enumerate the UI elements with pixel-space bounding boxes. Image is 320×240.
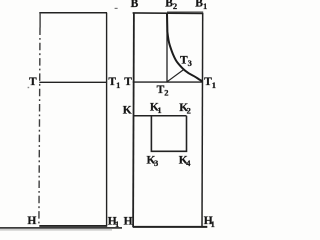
right rectangle top edge (133, 12, 204, 15)
left rectangle top edge (39, 12, 107, 14)
right rectangle left edge (132, 13, 135, 227)
pocket square K1-K2-K4-K3 (151, 116, 186, 152)
svg-text:B2: B2 (165, 0, 177, 11)
right rectangle top edge doubled segment (167, 11, 203, 13)
scan speck near B1 (115, 7, 118, 9)
left rectangle bottom edge (39, 225, 107, 227)
right rectangle bottom edge (133, 226, 208, 228)
bottom page rule (0, 227, 122, 229)
left rectangle fold line dashes (39, 28, 40, 226)
left rectangle right edge (106, 13, 108, 226)
right rectangle waist line T-T1 (133, 81, 203, 83)
svg-text:H: H (27, 215, 36, 227)
right rectangle right edge (201, 13, 204, 226)
bottom page rule echo (0, 229, 112, 231)
svg-text:T: T (29, 76, 37, 88)
svg-text:B1: B1 (195, 0, 207, 11)
construction line T2-T3 (167, 70, 184, 82)
vertical line B2-T2 (166, 13, 168, 82)
svg-text:K: K (123, 105, 132, 117)
pocket line K-K2 (134, 115, 187, 117)
svg-text:T: T (124, 76, 132, 88)
left rectangle waist line T-T1 (39, 81, 106, 83)
side seam curve B2-T3-T1 (167, 14, 202, 82)
left rectangle fold line (dash-dot left edge) (39, 13, 41, 28)
scan speck left margin (28, 87, 30, 88)
svg-text:H: H (124, 215, 133, 227)
svg-text:B: B (131, 0, 139, 10)
